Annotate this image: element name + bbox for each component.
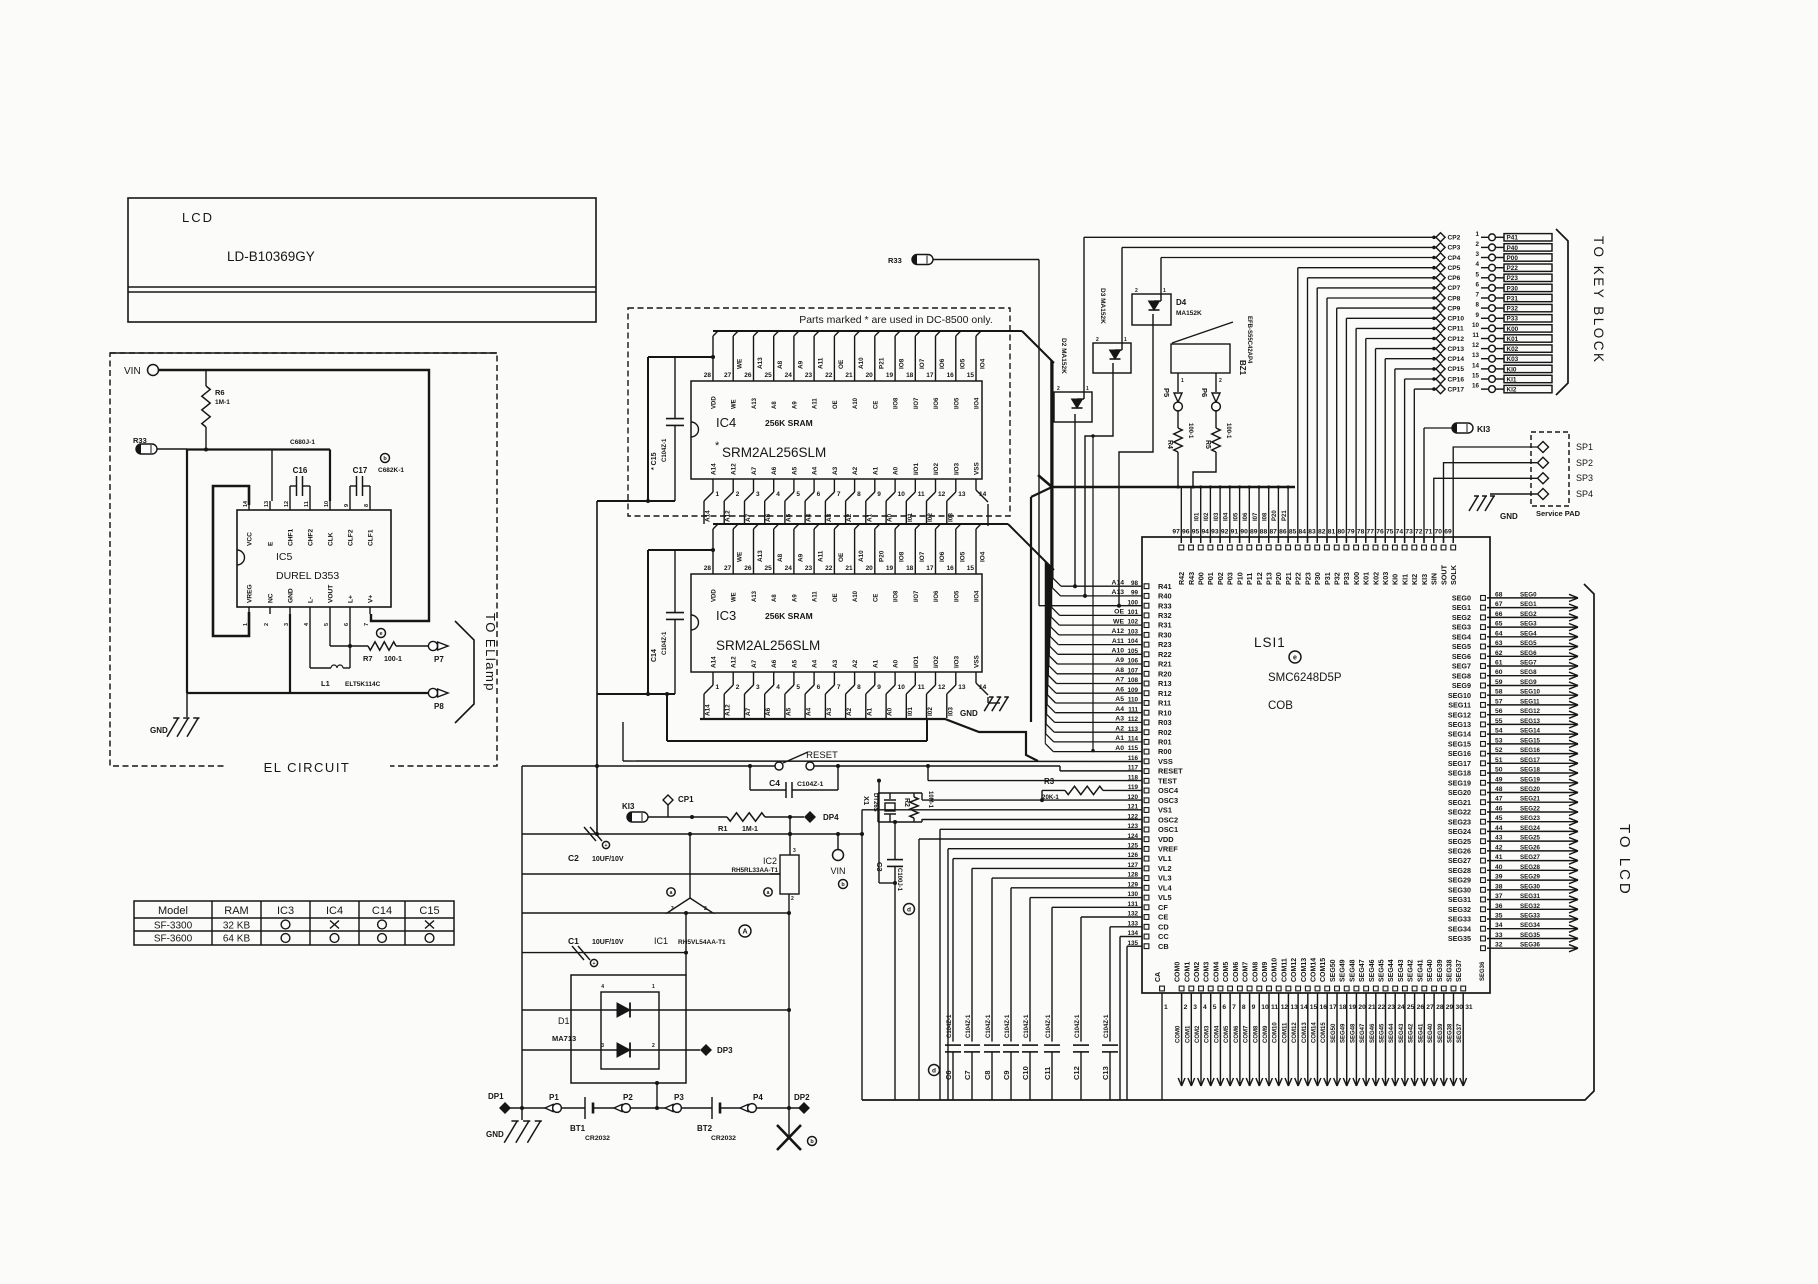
IC4 bottom pin leads — [704, 479, 988, 524]
svg-text:2: 2 — [1096, 337, 1099, 343]
svg-text:8: 8 — [857, 491, 861, 498]
svg-text:A10: A10 — [858, 550, 865, 562]
svg-text:A9: A9 — [1115, 657, 1124, 664]
svg-text:SEG29: SEG29 — [1520, 874, 1541, 881]
pad P8 to EL lamp — [428, 688, 448, 711]
svg-text:80: 80 — [1337, 529, 1345, 536]
svg-text:A6: A6 — [1115, 686, 1124, 693]
svg-text:82: 82 — [1318, 529, 1326, 536]
svg-text:WE: WE — [732, 399, 738, 409]
wire to GND rail (EL left) — [186, 449, 188, 693]
svg-text:62: 62 — [1495, 650, 1503, 657]
svg-text:SEG42: SEG42 — [1408, 959, 1415, 982]
svg-text:A3: A3 — [1115, 716, 1124, 723]
svg-text:42: 42 — [1495, 844, 1503, 851]
svg-text:COM3: COM3 — [1204, 962, 1211, 982]
wire R33 line to pin 100 — [933, 260, 1142, 608]
svg-text:COM5: COM5 — [1224, 1025, 1230, 1043]
svg-text:KI2: KI2 — [1410, 574, 1419, 585]
svg-text:LSI1: LSI1 — [1254, 635, 1286, 650]
svg-text:7: 7 — [364, 623, 370, 626]
detector IC1 RH5VL54AA-T1 — [654, 832, 772, 946]
capacitor C17 C682K-1 — [350, 454, 404, 502]
svg-text:27: 27 — [724, 372, 732, 379]
svg-text:65: 65 — [1495, 621, 1503, 628]
svg-text:R4: R4 — [1166, 440, 1173, 449]
svg-text:7: 7 — [1475, 292, 1479, 299]
svg-text:SEG35: SEG35 — [1520, 932, 1541, 939]
svg-text:A8: A8 — [777, 553, 784, 562]
wire VREF row — [948, 849, 1142, 1100]
svg-text:P32: P32 — [1333, 572, 1342, 585]
capacitor C16 C680J-1 — [290, 466, 310, 501]
svg-text:SEG5: SEG5 — [1452, 642, 1471, 651]
svg-text:P40: P40 — [1507, 245, 1519, 252]
capacitor C4 C104Z-1 — [748, 764, 840, 798]
svg-text:59: 59 — [1495, 679, 1503, 686]
svg-text:SP4: SP4 — [1576, 489, 1593, 499]
svg-text:SEG27: SEG27 — [1520, 854, 1541, 861]
svg-text:A10: A10 — [853, 590, 859, 602]
svg-text:SEG10: SEG10 — [1448, 691, 1471, 700]
svg-text:A3: A3 — [832, 659, 839, 668]
svg-text:A5: A5 — [785, 513, 792, 522]
pad CP1 — [663, 795, 694, 817]
svg-text:C100J-1: C100J-1 — [896, 868, 902, 892]
svg-text:IO8: IO8 — [899, 551, 906, 562]
svg-text:SEG20: SEG20 — [1520, 786, 1541, 793]
svg-text:16: 16 — [947, 372, 955, 379]
svg-text:P6: P6 — [1200, 388, 1209, 397]
svg-text:35: 35 — [1495, 913, 1503, 920]
svg-text:I/O1: I/O1 — [913, 462, 920, 475]
svg-text:5: 5 — [796, 684, 800, 691]
svg-text:COM14: COM14 — [1311, 958, 1318, 982]
svg-text:SEG11: SEG11 — [1448, 701, 1471, 710]
svg-text:54: 54 — [1495, 728, 1503, 735]
wire D2 to pin 98 row — [1074, 422, 1076, 586]
svg-text:RAM: RAM — [224, 905, 248, 917]
svg-text:MA713: MA713 — [552, 1034, 576, 1043]
svg-text:COM15: COM15 — [1320, 958, 1327, 982]
wire ground link to bus — [665, 692, 927, 741]
svg-text:10UF/10V: 10UF/10V — [592, 856, 624, 863]
svg-text:COM0: COM0 — [1176, 1025, 1182, 1043]
svg-text:25: 25 — [764, 565, 772, 572]
svg-text:I/O8: I/O8 — [894, 590, 900, 602]
svg-text:DP1: DP1 — [488, 1092, 504, 1101]
svg-text:67: 67 — [1495, 601, 1503, 608]
svg-text:TO LCD: TO LCD — [1616, 824, 1633, 897]
svg-text:COM7: COM7 — [1243, 962, 1250, 982]
svg-text:P20: P20 — [1274, 572, 1283, 585]
resistor R5 100-1 — [1191, 411, 1231, 489]
svg-text:COM12: COM12 — [1291, 958, 1298, 982]
svg-text:SEG30: SEG30 — [1448, 885, 1471, 894]
svg-text:WE: WE — [737, 358, 744, 369]
svg-text:A7: A7 — [1115, 677, 1124, 684]
svg-text:a: a — [670, 890, 673, 896]
svg-text:4: 4 — [776, 491, 780, 498]
inductor L1 ELT5K114C — [310, 614, 381, 688]
svg-text:Parts marked * are used in DC-: Parts marked * are used in DC-8500 only. — [799, 314, 993, 326]
svg-text:1: 1 — [1086, 386, 1089, 392]
svg-text:WE: WE — [732, 592, 738, 602]
svg-text:CP17: CP17 — [1448, 386, 1465, 393]
svg-text:A4: A4 — [812, 659, 819, 668]
svg-text:R6: R6 — [215, 388, 225, 397]
svg-text:20: 20 — [1358, 1004, 1366, 1011]
svg-text:71: 71 — [1425, 529, 1433, 536]
service pad box — [1531, 432, 1569, 506]
svg-text:CP15: CP15 — [1448, 366, 1465, 373]
svg-text:P32: P32 — [1507, 306, 1519, 313]
capacitor C1 10UF/10V — [568, 936, 624, 967]
svg-text:COM10: COM10 — [1273, 1022, 1279, 1043]
svg-text:C104Z-1: C104Z-1 — [986, 1014, 992, 1038]
svg-text:14: 14 — [1300, 1004, 1308, 1011]
svg-text:COM15: COM15 — [1321, 1022, 1327, 1043]
junction dots on bus fan — [1073, 584, 1087, 598]
wire VIN to V+ (thick) — [159, 370, 430, 621]
svg-text:GND: GND — [288, 588, 295, 603]
svg-text:I01: I01 — [1195, 512, 1201, 521]
LSI left pin pads and labels — [1127, 580, 1183, 951]
svg-text:I03: I03 — [1214, 512, 1220, 521]
svg-text:A8: A8 — [1115, 667, 1124, 674]
svg-text:SEG2: SEG2 — [1452, 613, 1471, 622]
svg-text:SEG41: SEG41 — [1417, 959, 1424, 982]
microcontroller LSI1 SMC6248D5P COB — [1142, 537, 1490, 993]
svg-text:C104Z-1: C104Z-1 — [947, 1014, 953, 1038]
svg-text:10UF/10V: 10UF/10V — [592, 939, 624, 946]
svg-text:IC3: IC3 — [277, 905, 294, 917]
svg-text:I/O5: I/O5 — [954, 590, 960, 602]
svg-text:24: 24 — [785, 372, 793, 379]
svg-text:13: 13 — [264, 501, 270, 507]
svg-text:16: 16 — [1320, 1004, 1328, 1011]
svg-text:+: + — [593, 961, 596, 967]
svg-text:SEG48: SEG48 — [1349, 959, 1356, 982]
svg-text:18: 18 — [906, 372, 914, 379]
svg-text:32: 32 — [1495, 942, 1503, 949]
svg-text:COM2: COM2 — [1195, 1025, 1201, 1043]
svg-text:I/O5: I/O5 — [954, 397, 960, 409]
svg-text:I/O6: I/O6 — [934, 590, 940, 602]
key block connector CP2-CP17 — [1432, 231, 1552, 394]
svg-text:46: 46 — [1495, 806, 1503, 813]
svg-text:78: 78 — [1357, 529, 1365, 536]
svg-text:DP4: DP4 — [823, 813, 839, 822]
svg-text:A7: A7 — [745, 513, 752, 522]
svg-text:2: 2 — [1475, 241, 1479, 248]
wire TEST row — [877, 766, 1142, 885]
svg-text:R2: R2 — [903, 798, 910, 807]
svg-text:P30: P30 — [1313, 572, 1322, 585]
svg-text:28: 28 — [704, 372, 712, 379]
svg-text:SEG14: SEG14 — [1448, 730, 1471, 739]
svg-text:92: 92 — [1221, 529, 1229, 536]
svg-text:GND: GND — [960, 709, 978, 718]
svg-text:119: 119 — [1128, 784, 1139, 791]
svg-text:5: 5 — [1213, 1004, 1217, 1011]
svg-text:P13: P13 — [1265, 572, 1274, 585]
svg-text:SEG1: SEG1 — [1452, 603, 1471, 612]
svg-text:CP9: CP9 — [1448, 305, 1461, 312]
svg-text:1: 1 — [1124, 337, 1127, 343]
svg-text:70: 70 — [1435, 529, 1443, 536]
svg-text:94: 94 — [1201, 529, 1209, 536]
svg-text:SEG8: SEG8 — [1520, 669, 1537, 676]
svg-text:10: 10 — [1261, 1004, 1269, 1011]
terminal VIN (EL) — [124, 365, 159, 378]
svg-text:A10: A10 — [853, 397, 859, 409]
svg-text:I06: I06 — [1243, 512, 1249, 521]
capacitor C9 C104Z-1 — [1002, 888, 1142, 1100]
svg-text:A14: A14 — [705, 510, 712, 522]
wire rail VOUT (C2) — [522, 832, 864, 836]
svg-text:D1: D1 — [558, 1016, 570, 1026]
svg-text:A7: A7 — [751, 466, 758, 475]
svg-text:CE: CE — [873, 401, 879, 409]
svg-text:P33: P33 — [1507, 316, 1519, 323]
svg-text:A3: A3 — [826, 513, 833, 522]
svg-text:3: 3 — [756, 491, 760, 498]
svg-text:D3 MA152K: D3 MA152K — [1099, 288, 1106, 324]
wire I/O trunk bus — [1038, 475, 1295, 487]
svg-text:3: 3 — [1193, 1004, 1197, 1011]
svg-text:R40: R40 — [1158, 592, 1172, 601]
svg-text:I08: I08 — [1263, 512, 1269, 521]
svg-text:a: a — [767, 890, 770, 896]
svg-text:13: 13 — [958, 491, 966, 498]
svg-text:1: 1 — [1164, 1004, 1168, 1011]
svg-text:SEG28: SEG28 — [1520, 864, 1541, 871]
wire VDD rail (IC3) — [648, 548, 715, 694]
svg-text:P20: P20 — [878, 550, 885, 562]
svg-text:6: 6 — [1222, 1004, 1226, 1011]
svg-text:76: 76 — [1376, 529, 1384, 536]
svg-text:C14: C14 — [651, 649, 658, 662]
svg-text:R1: R1 — [718, 824, 728, 833]
svg-text:52: 52 — [1495, 747, 1503, 754]
switch RESET — [522, 750, 861, 770]
svg-text:IO7: IO7 — [919, 358, 926, 369]
wire P2-P3 — [630, 1106, 665, 1110]
IC3 bottom pin leads — [704, 672, 988, 718]
wire rail (IC1) — [522, 912, 667, 914]
svg-text:SEG23: SEG23 — [1448, 817, 1471, 826]
svg-text:IO8: IO8 — [899, 358, 906, 369]
svg-text:18: 18 — [1339, 1004, 1347, 1011]
svg-text:P21: P21 — [1284, 572, 1293, 585]
svg-text:74: 74 — [1396, 529, 1404, 536]
svg-text:K00: K00 — [1507, 326, 1519, 333]
svg-text:CP3: CP3 — [1448, 245, 1461, 252]
pad SP2 — [1538, 457, 1594, 468]
svg-text:A2: A2 — [1115, 725, 1124, 732]
svg-text:C2: C2 — [568, 853, 579, 863]
lamp resistor R33 (EL) — [133, 436, 157, 454]
svg-text:IO6: IO6 — [939, 551, 946, 562]
svg-text:IO7: IO7 — [919, 551, 926, 562]
svg-text:SEG45: SEG45 — [1380, 1023, 1386, 1043]
svg-text:SEG45: SEG45 — [1379, 959, 1386, 982]
svg-text:SEG35: SEG35 — [1448, 934, 1471, 943]
svg-text:SEG21: SEG21 — [1520, 796, 1541, 803]
svg-text:P03: P03 — [1226, 572, 1235, 585]
svg-text:32 KB: 32 KB — [223, 921, 251, 932]
svg-text:95: 95 — [1192, 529, 1200, 536]
svg-text:V+: V+ — [368, 595, 375, 603]
svg-text:R02: R02 — [1158, 728, 1172, 737]
pin P4 — [740, 1093, 763, 1112]
svg-text:R31: R31 — [1158, 621, 1172, 630]
svg-text:CB: CB — [1158, 942, 1169, 951]
svg-text:BT2: BT2 — [697, 1124, 713, 1133]
svg-text:VREG: VREG — [247, 584, 254, 603]
SRAM IC4 SRM2AL256SLM — [691, 381, 982, 479]
svg-text:X1: X1 — [862, 796, 871, 805]
svg-text:P21: P21 — [1282, 510, 1288, 521]
svg-text:K01: K01 — [1362, 572, 1371, 585]
svg-text:I01: I01 — [907, 513, 914, 522]
svg-text:d: d — [907, 906, 911, 913]
wire VDD row — [919, 839, 1142, 1100]
svg-text:21: 21 — [845, 565, 853, 572]
svg-text:A0: A0 — [893, 659, 900, 668]
capacitor C7 C104Z-1 — [963, 868, 1142, 1100]
svg-text:COM11: COM11 — [1281, 958, 1288, 982]
svg-text:I/O6: I/O6 — [934, 397, 940, 409]
svg-text:21: 21 — [1368, 1004, 1376, 1011]
svg-text:38: 38 — [1495, 883, 1503, 890]
svg-text:RESET: RESET — [806, 750, 838, 761]
svg-text:15: 15 — [1472, 373, 1480, 380]
svg-text:SEG37: SEG37 — [1456, 959, 1463, 982]
svg-text:VS1: VS1 — [1158, 806, 1172, 815]
svg-text:VL1: VL1 — [1158, 854, 1172, 863]
svg-text:COM0: COM0 — [1175, 962, 1182, 982]
svg-text:5: 5 — [324, 623, 330, 626]
diode pack D1 MA713 — [522, 984, 791, 1069]
bracket TO ELlamp — [455, 613, 498, 723]
svg-text:17: 17 — [1329, 1004, 1337, 1011]
svg-text:77: 77 — [1367, 529, 1375, 536]
svg-text:SEG19: SEG19 — [1448, 778, 1471, 787]
svg-text:C104Z-1: C104Z-1 — [662, 631, 668, 655]
svg-text:+: + — [605, 843, 608, 849]
svg-text:28: 28 — [704, 565, 712, 572]
svg-text:P02: P02 — [1216, 572, 1225, 585]
svg-text:VL5: VL5 — [1158, 893, 1172, 902]
svg-text:23: 23 — [805, 565, 813, 572]
svg-text:A1: A1 — [866, 513, 873, 522]
svg-text:2: 2 — [652, 1043, 655, 1049]
svg-text:I/O8: I/O8 — [894, 397, 900, 409]
svg-text:KI1: KI1 — [1507, 376, 1517, 383]
pin P2 — [614, 1093, 633, 1112]
svg-text:C1: C1 — [568, 936, 579, 946]
svg-text:TO ELlamp: TO ELlamp — [483, 613, 498, 692]
svg-text:SEG7: SEG7 — [1520, 660, 1537, 667]
svg-text:K01: K01 — [1507, 336, 1519, 343]
svg-text:1: 1 — [652, 984, 655, 990]
svg-text:15: 15 — [967, 372, 975, 379]
svg-text:6: 6 — [817, 491, 821, 498]
svg-text:R33: R33 — [888, 256, 902, 265]
svg-text:COM1: COM1 — [1185, 1025, 1191, 1043]
svg-text:SEG28: SEG28 — [1448, 866, 1471, 875]
svg-text:I/O3: I/O3 — [953, 655, 960, 668]
wire left rail to ground — [521, 766, 523, 1120]
svg-text:SOUT: SOUT — [1439, 564, 1448, 585]
svg-text:2: 2 — [1219, 378, 1222, 384]
svg-text:P23: P23 — [1303, 572, 1312, 585]
svg-text:A5: A5 — [791, 659, 798, 668]
svg-text:SEG37: SEG37 — [1457, 1023, 1463, 1043]
svg-text:A14: A14 — [711, 463, 718, 475]
svg-text:KI0: KI0 — [1391, 574, 1400, 585]
svg-text:56: 56 — [1495, 708, 1503, 715]
svg-text:2: 2 — [1135, 288, 1138, 294]
svg-text:SEG48: SEG48 — [1350, 1023, 1356, 1043]
svg-text:SEG17: SEG17 — [1448, 759, 1471, 768]
svg-text:OE: OE — [833, 593, 839, 602]
svg-text:Model: Model — [158, 905, 188, 917]
svg-text:SEG9: SEG9 — [1452, 681, 1471, 690]
svg-text:IC2: IC2 — [763, 856, 777, 866]
IC3 bottom bus to LSI — [700, 719, 1038, 761]
diode D4 MA152K — [1132, 258, 1434, 326]
svg-text:OE: OE — [838, 359, 845, 369]
svg-text:COM11: COM11 — [1282, 1022, 1288, 1043]
svg-text:43: 43 — [1495, 835, 1503, 842]
terminal VIN (power) — [830, 832, 847, 889]
svg-text:SEG10: SEG10 — [1520, 689, 1541, 696]
svg-text:SEG39: SEG39 — [1438, 1023, 1444, 1043]
svg-text:SP3: SP3 — [1576, 473, 1593, 483]
IC3 VSS lead to ground — [988, 697, 1000, 703]
svg-text:SEG38: SEG38 — [1448, 1023, 1454, 1043]
svg-text:P22: P22 — [1507, 265, 1519, 272]
svg-text:SEG46: SEG46 — [1369, 959, 1376, 982]
svg-text:I04: I04 — [1224, 512, 1230, 521]
regulator IC2 RH5RL33AA-T1 — [731, 832, 799, 902]
svg-text:SEG38: SEG38 — [1447, 959, 1454, 982]
svg-text:ELT5K114C: ELT5K114C — [345, 681, 381, 688]
svg-text:SIN: SIN — [1430, 573, 1439, 585]
svg-text:22: 22 — [825, 565, 833, 572]
svg-text:R11: R11 — [1158, 699, 1171, 708]
svg-text:26: 26 — [744, 565, 752, 572]
svg-text:9: 9 — [877, 491, 881, 498]
svg-text:C7: C7 — [963, 1070, 972, 1080]
svg-text:72: 72 — [1415, 529, 1423, 536]
svg-text:2: 2 — [736, 491, 740, 498]
svg-text:SEG13: SEG13 — [1520, 718, 1541, 725]
svg-text:A0: A0 — [887, 707, 894, 716]
svg-text:SEG2: SEG2 — [1520, 611, 1537, 618]
svg-text:2: 2 — [704, 906, 707, 912]
svg-text:IC3: IC3 — [716, 608, 736, 623]
svg-text:13: 13 — [1472, 352, 1480, 359]
svg-text:OE: OE — [838, 552, 845, 562]
svg-text:A9: A9 — [792, 594, 798, 602]
wire battery row — [510, 1106, 545, 1110]
svg-text:P4: P4 — [753, 1093, 763, 1102]
svg-text:A11: A11 — [813, 398, 819, 409]
